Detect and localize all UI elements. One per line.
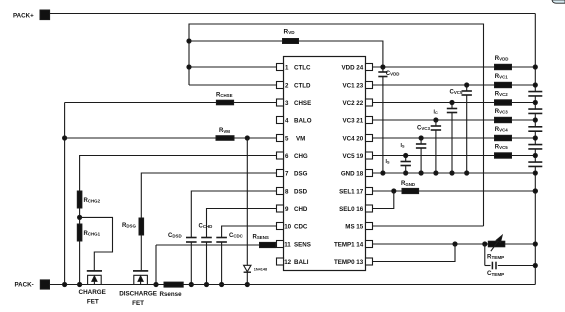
- wire charge FET gate: [80, 217, 113, 270]
- svg-text:RCHSE: RCHSE: [216, 93, 233, 99]
- pin 10 CDC: [277, 223, 284, 230]
- wire TEMP0 pin 13 to TEMP1: [373, 244, 456, 262]
- wire SEL1 pin 17 row: [373, 190, 536, 192]
- resistor RVM: [65, 137, 216, 139]
- wire second top rail (CTLC/CTLD/MS net): [189, 24, 484, 226]
- pin 8 DSD: [277, 188, 284, 195]
- wire right rail (PACK+) down to RVDD node: [534, 14, 536, 86]
- pin 21 VC3: [366, 117, 373, 124]
- IC U1 battery monitor body: [284, 57, 366, 271]
- svg-text:RCHG2: RCHG2: [84, 198, 101, 204]
- wire TEMP1 pin 14 row: [373, 243, 489, 245]
- wire PACK+ top rail to right edge: [50, 13, 536, 15]
- wire DSD pin 8 row: [191, 191, 276, 238]
- svg-text:CCDC: CCDC: [229, 233, 244, 239]
- svg-text:GND 18: GND 18: [341, 170, 364, 177]
- svg-text:IS: IS: [401, 143, 405, 149]
- capacitor CTEMP: [484, 244, 486, 266]
- svg-text:5: 5: [285, 135, 289, 142]
- svg-text:RVM: RVM: [219, 128, 230, 134]
- svg-text:VDD 24: VDD 24: [342, 64, 364, 71]
- pin 4 BALO: [277, 117, 284, 124]
- diode 1N4148: [244, 265, 251, 271]
- pin 22 VC2: [366, 99, 373, 106]
- svg-text:TEMP1 14: TEMP1 14: [334, 241, 364, 248]
- svg-text:6: 6: [285, 153, 289, 160]
- svg-text:CVC5: CVC5: [450, 90, 463, 96]
- svg-text:SEL0 16: SEL0 16: [339, 206, 364, 213]
- svg-text:RTEMP: RTEMP: [487, 253, 504, 260]
- wire VC3 row wire: [373, 119, 536, 121]
- wire discharge FET gate: [140, 235, 142, 270]
- pin 14 TEMP1: [366, 241, 373, 248]
- wire SENS to rail: [155, 245, 157, 285]
- svg-text:CCHD: CCHD: [199, 224, 213, 230]
- svg-text:1: 1: [285, 64, 289, 71]
- capacitor on VC4 line: [419, 136, 423, 140]
- svg-text:FET: FET: [87, 298, 99, 305]
- capacitor CDSD: [186, 237, 197, 239]
- resistor RCHSE: [65, 102, 217, 104]
- svg-text:CTEMP: CTEMP: [487, 270, 504, 277]
- svg-text:12: 12: [284, 259, 291, 266]
- wire MS pin 15 to top rail: [373, 225, 484, 227]
- svg-text:CHARGE: CHARGE: [79, 289, 106, 296]
- pin 12 BALI: [277, 258, 284, 265]
- resistor RVC2: [495, 100, 512, 105]
- svg-text:1N4148: 1N4148: [254, 267, 267, 271]
- svg-text:RGND: RGND: [401, 181, 415, 187]
- capacitor cell filter: [528, 108, 542, 110]
- capacitor on VC1 line: [465, 83, 469, 87]
- svg-text:VC2 22: VC2 22: [343, 100, 364, 107]
- wire CHG pin 6 row: [80, 156, 277, 192]
- svg-text:SEL1 17: SEL1 17: [339, 188, 364, 195]
- pin 6 CHG: [277, 152, 284, 159]
- svg-text:DSD: DSD: [294, 188, 308, 195]
- wire pin 2 CTLD: [189, 84, 277, 86]
- svg-text:RSENS: RSENS: [253, 235, 269, 241]
- transistor Q1 charge FET: [88, 275, 102, 284]
- svg-text:PACK+: PACK+: [13, 12, 34, 19]
- transistor Q2 discharge FET: [134, 275, 148, 284]
- svg-text:BALI: BALI: [294, 259, 309, 266]
- wire CHD pin 9 row: [207, 209, 277, 238]
- resistor RVC5: [495, 153, 512, 158]
- svg-text:IS: IS: [386, 159, 390, 165]
- svg-text:RVC5: RVC5: [495, 144, 508, 150]
- pin 11 SENS: [277, 241, 284, 248]
- pin 18 GND: [366, 170, 373, 177]
- svg-text:TEMP0 13: TEMP0 13: [334, 259, 364, 266]
- capacitor CVDD: [382, 67, 384, 72]
- svg-text:CHD: CHD: [294, 206, 308, 213]
- node junction on left rail at CTLC row: [187, 65, 191, 69]
- svg-text:RDSG: RDSG: [122, 223, 136, 229]
- svg-text:CHSE: CHSE: [294, 100, 311, 107]
- wire VDD pin 24 row: [373, 66, 536, 68]
- node left rail to bottom junction: [63, 282, 67, 286]
- svg-text:CTLC: CTLC: [294, 64, 311, 71]
- node junction on left rail at RVD row: [187, 39, 191, 43]
- svg-text:VM: VM: [296, 135, 305, 142]
- svg-text:11: 11: [284, 241, 291, 248]
- svg-text:CDC: CDC: [294, 223, 308, 230]
- wire GND pin 18 row: [373, 172, 536, 174]
- resistor RVD: [189, 40, 283, 42]
- capacitor cell filter: [528, 126, 542, 128]
- svg-text:CDSD: CDSD: [168, 233, 182, 239]
- node SEL1/SEL0 junction: [392, 189, 396, 193]
- pin 23 VC1: [366, 82, 373, 89]
- capacitor CCDC: [216, 237, 227, 239]
- resistor RSENS: [276, 244, 277, 246]
- svg-text:7: 7: [285, 170, 289, 177]
- svg-text:VC3 21: VC3 21: [343, 117, 364, 124]
- wire VM to diode: [246, 138, 248, 265]
- resistor RVC4: [495, 135, 512, 140]
- resistor RGND: [402, 188, 419, 193]
- svg-text:4: 4: [285, 117, 289, 124]
- svg-text:FET: FET: [132, 300, 144, 307]
- svg-text:CTLD: CTLD: [294, 82, 311, 89]
- svg-text:CHG: CHG: [294, 153, 308, 160]
- pin 17 SEL1: [366, 188, 373, 195]
- wire CDC pin 10 row: [222, 226, 277, 238]
- pin 16 SEL0: [366, 205, 373, 212]
- svg-text:DSG: DSG: [294, 170, 308, 177]
- svg-text:PACK-: PACK-: [15, 281, 34, 288]
- node VDD junction: [381, 65, 385, 69]
- pin 15 MS: [366, 223, 373, 230]
- svg-text:VC1 23: VC1 23: [343, 82, 364, 89]
- node VM diode junction: [245, 136, 249, 140]
- svg-text:IC: IC: [434, 109, 438, 115]
- svg-text:VC4 20: VC4 20: [343, 135, 364, 142]
- pin 24 VDD: [366, 64, 373, 71]
- svg-text:Rsense: Rsense: [160, 291, 183, 298]
- pin 5 VM: [277, 135, 284, 142]
- node VM rail junction: [63, 136, 67, 140]
- resistor RVDD: [495, 64, 512, 69]
- svg-text:RVDD: RVDD: [495, 56, 509, 62]
- svg-text:RVC1: RVC1: [495, 74, 508, 80]
- capacitor on VC5 line: [404, 153, 408, 157]
- wire VC2 row wire: [373, 102, 536, 104]
- svg-text:9: 9: [285, 206, 289, 213]
- wire DSG pin 7 row: [141, 173, 276, 218]
- wire bottom PACK- rail: [50, 284, 536, 286]
- svg-text:RVD: RVD: [284, 29, 296, 36]
- svg-text:DISCHARGE: DISCHARGE: [119, 291, 157, 298]
- wire SEL0 pin 16 to SEL1: [373, 191, 394, 209]
- node gate divider junction: [79, 208, 81, 224]
- resistor RVC1: [495, 82, 512, 87]
- capacitor cell filter: [528, 91, 542, 93]
- resistor RCHG2: [77, 191, 82, 208]
- node CVDD to GND junction: [381, 171, 385, 175]
- resistor RCHG1: [77, 224, 82, 241]
- svg-text:CVDD: CVDD: [386, 71, 400, 77]
- pin 13 TEMP0: [366, 258, 373, 265]
- capacitor on VC3 line: [434, 118, 438, 122]
- svg-text:CVC3: CVC3: [417, 126, 430, 132]
- resistor RVC3: [495, 117, 512, 122]
- svg-text:MS 15: MS 15: [345, 223, 363, 230]
- svg-text:2: 2: [285, 82, 289, 89]
- svg-text:SENS: SENS: [294, 241, 311, 248]
- pin 1 CTLC: [277, 64, 284, 71]
- svg-text:RCHG1: RCHG1: [84, 231, 101, 237]
- wire VC5 row wire: [373, 155, 536, 157]
- wire pin 1 CTLC: [189, 66, 277, 68]
- pin 20 VC4: [366, 135, 373, 142]
- capacitor cell filter: [528, 161, 542, 163]
- node right rail junctions: [533, 65, 537, 69]
- resistor RDSG: [139, 218, 144, 235]
- pin 3 CHSE: [277, 99, 284, 106]
- pin 9 CHD: [277, 205, 284, 212]
- svg-text:8: 8: [285, 188, 289, 195]
- node TEMP1 junctions: [453, 242, 457, 246]
- pin 2 CTLD: [277, 82, 284, 89]
- capacitor cell filter: [528, 144, 542, 146]
- node RCHG1 to rail junction: [78, 282, 82, 286]
- svg-text:RVC3: RVC3: [495, 109, 508, 115]
- pin 7 DSG: [277, 170, 284, 177]
- node SENS rail junction: [154, 282, 158, 286]
- svg-text:BALO: BALO: [294, 117, 312, 124]
- resistor Rsense: [164, 282, 183, 287]
- pin 19 VC5: [366, 152, 373, 159]
- svg-text:VC5 19: VC5 19: [343, 153, 364, 160]
- capacitor CCHD: [201, 237, 212, 239]
- wire VC4 row wire: [373, 137, 536, 139]
- wire right rail with filter capacitors: [534, 85, 536, 92]
- thermistor RTEMP: [488, 241, 505, 247]
- svg-text:10: 10: [284, 223, 291, 230]
- svg-text:RVC2: RVC2: [495, 91, 508, 97]
- capacitor on VC2 line: [450, 100, 454, 104]
- wire left sense rail: [64, 103, 66, 285]
- svg-text:3: 3: [285, 100, 289, 107]
- wire VC1 row wire: [373, 84, 536, 86]
- node RGND right rail junction: [533, 189, 537, 193]
- svg-text:RVC4: RVC4: [495, 127, 508, 133]
